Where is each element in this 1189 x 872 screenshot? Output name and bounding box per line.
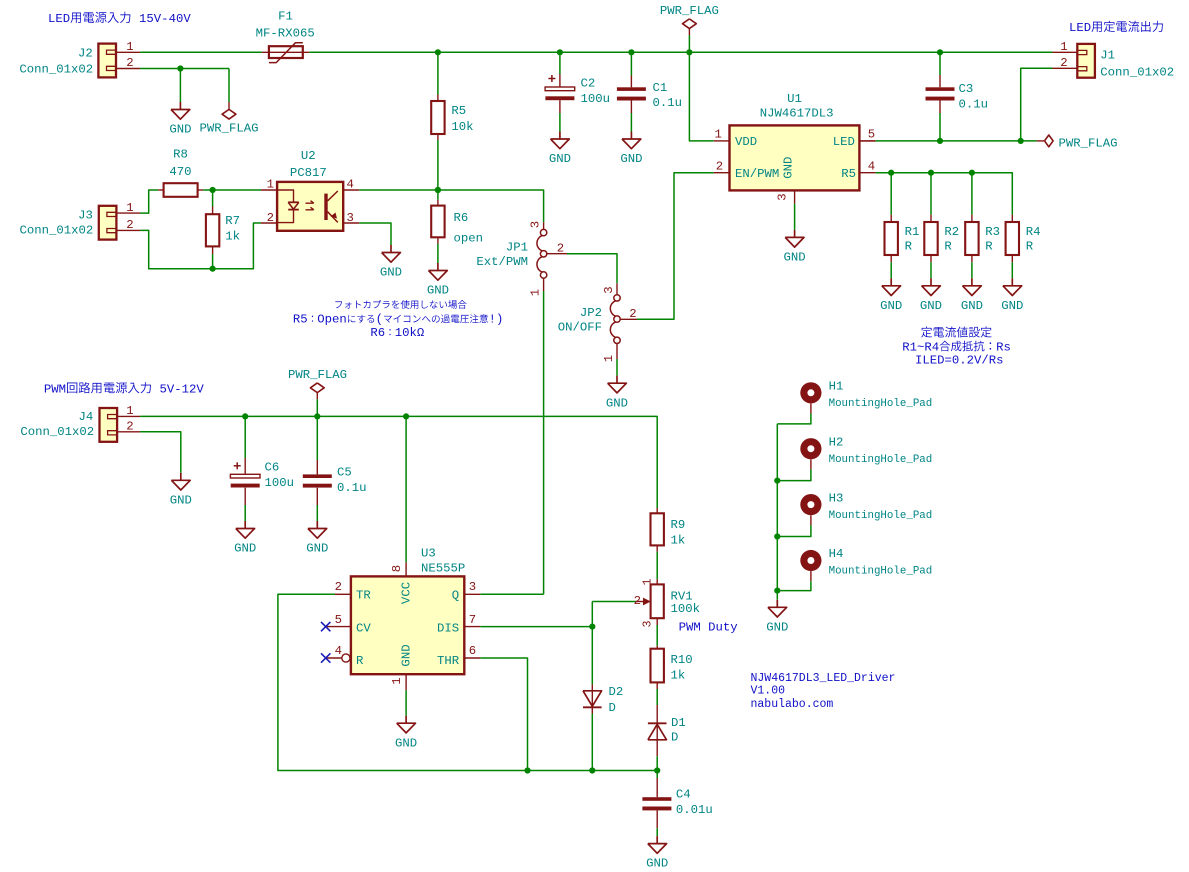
ground below C5 [316, 521, 318, 529]
J1 pin 2 [1053, 67, 1078, 69]
resistor R8 [164, 183, 198, 197]
wire LED line [876, 140, 1037, 142]
J4 pin 1 [117, 415, 140, 417]
svg-text:GND: GND [170, 493, 192, 507]
junction bus at H3 [774, 533, 780, 539]
R8 left pin [158, 189, 163, 191]
junction R5-R6 opto node [435, 187, 441, 193]
svg-text:GND: GND [549, 152, 571, 166]
U3 pin 1 GND [405, 674, 407, 690]
wire node down to R7 [212, 190, 214, 207]
R6 top pin [437, 200, 439, 206]
wire R1 to GND [890, 262, 892, 278]
D1 pin line [656, 705, 658, 756]
R4 bottom pin [1011, 255, 1013, 262]
ground below C4 [656, 836, 658, 844]
junction LED line at J1 pin2 drop [1018, 138, 1024, 144]
wire RV1 to R10 [656, 625, 658, 646]
svg-text:8: 8 [390, 565, 404, 572]
svg-text:C1: C1 [653, 81, 668, 95]
svg-text:5: 5 [335, 613, 342, 627]
wire D2 to bottom rail [591, 714, 593, 771]
junction D2 at bottom rail [589, 767, 595, 773]
JP2 pin 3 stub [616, 283, 618, 294]
svg-text:open: open [454, 232, 484, 246]
ground below C1 [630, 132, 632, 140]
H4 pin stub [810, 571, 812, 581]
ground below U2 [390, 245, 392, 253]
svg-text:2: 2 [716, 160, 723, 174]
wire C3 bottom [939, 113, 941, 141]
svg-text:R6: R6 [370, 326, 385, 340]
mounting hole H2 [800, 438, 821, 459]
svg-text:EN/PWM: EN/PWM [735, 167, 779, 181]
svg-text:nabulabo.com: nabulabo.com [751, 698, 834, 711]
junction bus at H4 [774, 588, 780, 594]
svg-text:Rs: Rs [996, 340, 1011, 354]
C6 bottom pin [244, 488, 246, 505]
svg-text:1: 1 [390, 677, 404, 684]
ground below U1 [794, 230, 796, 238]
U2 pin 2 [261, 222, 277, 224]
U1 pin 4 R5 [859, 172, 875, 174]
svg-text:R5: R5 [841, 167, 856, 181]
wire U3 THR down [480, 658, 527, 771]
C5 top pin [316, 460, 318, 474]
svg-text:2: 2 [629, 307, 636, 321]
U3 pin 4 inversion bubble [342, 654, 350, 662]
wire J3 pin2 to bottom link [140, 223, 261, 269]
C3 bottom pin [939, 101, 941, 114]
svg-text:Ext/PWM: Ext/PWM [476, 255, 528, 269]
R10 bottom pin [656, 682, 658, 689]
svg-text:1: 1 [715, 128, 722, 142]
svg-text:PWR_FLAG: PWR_FLAG [199, 122, 258, 136]
R10 top pin [656, 646, 658, 649]
wire rail to U3 VCC [405, 416, 407, 562]
ground below mounting bus [776, 600, 778, 608]
svg-text:Conn_01x02: Conn_01x02 [20, 224, 94, 238]
wire R9 to RV1 [656, 552, 658, 580]
ground below J2 [179, 102, 181, 110]
resistor R5 [431, 101, 444, 134]
power flag LED output [1037, 140, 1045, 142]
junction top rail at U1 VDD drop [686, 49, 692, 55]
R4 top pin [1011, 215, 1013, 222]
svg-text:R10: R10 [671, 653, 693, 667]
wire C5 to GND [316, 505, 318, 521]
svg-text:DIS: DIS [437, 621, 459, 635]
svg-text:R: R [944, 239, 952, 253]
R5 top pin [437, 95, 439, 102]
note line 1 photocoupler usage [335, 301, 342, 308]
svg-text:Conn_01x02: Conn_01x02 [19, 62, 93, 76]
R2 top pin [930, 215, 932, 222]
wire C1 to GND [630, 113, 632, 132]
svg-text:CV: CV [356, 621, 371, 635]
svg-text:1k: 1k [225, 229, 240, 243]
svg-text:H4: H4 [829, 547, 844, 561]
svg-text:GND: GND [880, 299, 902, 313]
ground below R2 [930, 278, 932, 286]
wire C4 to GND [656, 828, 658, 836]
wire F1 to top rail [309, 51, 1052, 53]
ground below R1 [890, 278, 892, 286]
wire R4 to GND [1011, 262, 1013, 278]
wire H3 to bus [777, 525, 811, 536]
svg-text:H3: H3 [829, 491, 844, 505]
resistor R6 [431, 206, 444, 238]
fuse F1 slash [269, 43, 303, 63]
connector J1 [1077, 44, 1095, 78]
junction top rail at C2 [557, 49, 563, 55]
wire C2 to GND [559, 113, 561, 132]
svg-text:3: 3 [529, 221, 543, 228]
svg-text:TR: TR [356, 589, 371, 603]
svg-text:5: 5 [868, 128, 875, 142]
wire down to R3 [971, 173, 973, 215]
svg-text:15V-40V: 15V-40V [139, 12, 191, 26]
svg-text:100u: 100u [581, 92, 611, 106]
wire down to R1 [890, 173, 892, 215]
wire J2 pin2 to PWR_FLAG drop [140, 68, 229, 70]
svg-text:R7: R7 [225, 214, 240, 228]
U2 pin 3 [343, 222, 359, 224]
J2 pin 2 [116, 68, 140, 70]
wire JP2 pin1 to GND [616, 359, 618, 376]
RV1 wiper arrow [636, 601, 644, 603]
resistor R9 [651, 513, 664, 545]
capacitor C3 [926, 87, 955, 91]
svg-text:R5: R5 [451, 104, 466, 118]
wire top rail to C2 [559, 52, 561, 74]
wire JP2 pin2 to U1 ENPWM [637, 173, 714, 320]
RV1 bottom pin [656, 618, 658, 625]
svg-text:R4: R4 [1026, 225, 1041, 239]
svg-text:GND: GND [961, 299, 983, 313]
svg-text:LED: LED [1069, 21, 1091, 35]
resistor R1 [885, 222, 898, 255]
svg-text:0.1u: 0.1u [959, 98, 989, 112]
capacitor C6 [230, 474, 260, 478]
svg-text:PWR_FLAG: PWR_FLAG [288, 368, 347, 382]
U2 pin 4 [343, 189, 359, 191]
jumper JP1 [540, 229, 546, 235]
U3 pin 6 THR [464, 657, 480, 659]
wire J4 pin2 to GND [140, 432, 181, 473]
svg-text:THR: THR [437, 654, 460, 668]
C6 top pin [244, 458, 246, 474]
svg-text:100k: 100k [671, 602, 701, 616]
J3 pin 2 [116, 229, 140, 231]
power flag PWM rail [316, 399, 318, 416]
svg-text:MountingHole_Pad: MountingHole_Pad [829, 510, 933, 522]
svg-text:J3: J3 [78, 209, 93, 223]
wire J2 pin1 to fuse F1 [140, 51, 262, 53]
svg-text:GND: GND [920, 299, 942, 313]
svg-text:LED: LED [48, 12, 70, 26]
svg-text:R1~R4: R1~R4 [902, 340, 939, 354]
svg-text:MountingHole_Pad: MountingHole_Pad [829, 566, 933, 578]
wire JP1 pin2 to JP2 pin3 [567, 254, 617, 284]
svg-text:C2: C2 [581, 77, 596, 91]
resistor R4 [1006, 222, 1019, 255]
svg-text:V1.00: V1.00 [751, 685, 786, 698]
U1 pin 3 GND [794, 190, 796, 203]
JP2 pin 1 stub [616, 344, 618, 359]
svg-text:GND: GND [306, 542, 328, 556]
svg-text:MF-RX065: MF-RX065 [256, 27, 315, 41]
U3 pin 7 DIS [464, 626, 480, 628]
svg-text:GND: GND [606, 396, 628, 410]
ground below U3 [405, 716, 407, 724]
junction R5 line at R3 [969, 170, 975, 176]
svg-text:1k: 1k [671, 669, 686, 683]
svg-text:R5: R5 [293, 312, 308, 326]
svg-text:U2: U2 [301, 149, 316, 163]
svg-text:R2: R2 [944, 225, 959, 239]
wire H4 to bus [777, 581, 811, 590]
J3 pin 1 [116, 212, 140, 214]
U3 pin 2 TR [335, 593, 351, 595]
wire top rail to U1 VDD [689, 52, 713, 141]
wire U3 pin1 to GND [405, 690, 407, 715]
svg-text:R9: R9 [671, 518, 686, 532]
U2 internal LED diode [277, 190, 293, 202]
svg-text:GND: GND [169, 123, 191, 137]
wire U2 pin4 to JP1 [359, 190, 543, 222]
svg-text:GND: GND [380, 266, 402, 280]
wire wiper down to DIS node [591, 602, 593, 685]
no-connect X on U3 pin 4 [321, 653, 330, 662]
svg-text:VCC: VCC [400, 582, 414, 604]
U3 pin 8 VCC [405, 562, 407, 576]
J4 pin 2 [117, 431, 140, 433]
C5 bottom pin [316, 488, 318, 505]
wire U1 pin3 to GND [794, 204, 796, 230]
wire rail to C6 [244, 416, 246, 458]
resistor R2 [924, 222, 937, 255]
U1 pin 1 VDD [714, 140, 730, 142]
svg-text:Open: Open [317, 312, 347, 326]
svg-text:C3: C3 [959, 82, 974, 96]
ground below C6 [244, 521, 246, 529]
wire RV1 wiper link [592, 601, 635, 603]
svg-text:GND: GND [784, 251, 806, 265]
svg-text:GND: GND [766, 620, 788, 634]
svg-text:GND: GND [427, 284, 449, 298]
svg-text:Conn_01x02: Conn_01x02 [1100, 65, 1174, 79]
junction THR at bottom rail [524, 767, 530, 773]
svg-text:2: 2 [557, 241, 564, 255]
H1 pin stub [810, 403, 812, 413]
svg-text:H1: H1 [829, 380, 844, 394]
svg-text:1: 1 [1060, 40, 1067, 54]
svg-text:ILED=0.2V/Rs: ILED=0.2V/Rs [915, 354, 1004, 368]
svg-text:4: 4 [868, 160, 875, 174]
svg-text:R: R [356, 654, 364, 668]
svg-text:4: 4 [335, 644, 342, 658]
wire R7 bottom to link [212, 254, 214, 269]
wire JP1 pin1 down to U3 Q [543, 291, 545, 594]
wire H2 to bus [777, 469, 811, 480]
junction rail at U3 VCC [403, 413, 409, 419]
wire bottom rail to C4 [656, 771, 658, 779]
svg-text:Q: Q [452, 589, 459, 603]
wire R2 to GND [930, 262, 932, 278]
junction top rail at R5 [435, 49, 441, 55]
H2 pin stub [810, 459, 812, 469]
C2 bottom pin [559, 100, 561, 113]
wire C3 top [939, 52, 941, 75]
wire mounting bus [776, 424, 778, 600]
svg-text:3: 3 [347, 211, 354, 225]
svg-text:JP1: JP1 [506, 241, 528, 255]
capacitor C2 [545, 87, 575, 91]
potentiometer RV1 body [651, 584, 664, 618]
wire J3 pin1 up to R8 [140, 190, 158, 213]
U2 pin 1 [261, 189, 277, 191]
JP1 pin 2 stub [547, 253, 567, 255]
svg-text:(: ( [376, 312, 383, 326]
C3 top pin [939, 75, 941, 87]
wire down to GND from J2 pin2 [179, 69, 181, 103]
svg-text:0.1u: 0.1u [337, 481, 367, 495]
svg-text:2: 2 [335, 580, 342, 594]
U3 pin 5 CV [327, 626, 351, 628]
svg-text:1k: 1k [671, 534, 686, 548]
svg-text:2: 2 [126, 420, 133, 434]
svg-text:0.01u: 0.01u [676, 803, 713, 817]
svg-text:C6: C6 [265, 461, 280, 475]
JP2 pin 2 stub [620, 318, 637, 320]
R2 bottom pin [930, 255, 932, 262]
svg-text:D1: D1 [671, 716, 686, 730]
diode D2 [583, 691, 602, 707]
svg-text:D: D [609, 701, 616, 715]
svg-text:MountingHole_Pad: MountingHole_Pad [829, 398, 933, 410]
C4 top pin [656, 778, 658, 797]
wire down to R2 [930, 173, 932, 215]
R6 bottom pin [437, 237, 439, 243]
wire C6 to GND [244, 505, 246, 521]
svg-text:C5: C5 [337, 466, 352, 480]
R9 top pin [656, 508, 658, 513]
R8 right pin [198, 189, 204, 191]
svg-text:PWM: PWM [44, 382, 66, 396]
svg-text:10kΩ: 10kΩ [395, 326, 425, 340]
wire down to PWR_FLAG [228, 69, 230, 103]
mounting hole H1 [800, 382, 821, 403]
ground below C2 [559, 132, 561, 140]
wire J4 rail [140, 416, 657, 508]
svg-text:2: 2 [126, 56, 133, 70]
svg-text:0.1u: 0.1u [653, 96, 683, 110]
diode D1 [648, 722, 667, 724]
opto-coupler U2 body [277, 182, 343, 231]
junction DIS node [589, 624, 595, 630]
svg-text:U3: U3 [421, 547, 436, 561]
jumper JP2 [614, 295, 620, 301]
svg-text:R3: R3 [985, 225, 1000, 239]
svg-text:1: 1 [126, 40, 133, 54]
wire H1 to bus [777, 414, 811, 424]
svg-text:VDD: VDD [735, 135, 757, 149]
wire R6 to GND [437, 244, 439, 264]
svg-text:R6: R6 [454, 211, 469, 225]
IC U3 body [351, 576, 464, 674]
C2 top pin [559, 74, 561, 87]
R3 top pin [971, 215, 973, 222]
svg-text:NJW4617DL3: NJW4617DL3 [760, 107, 834, 121]
wire R10 to D1 [656, 689, 658, 705]
svg-text:1: 1 [267, 178, 274, 192]
resistor R10 [651, 649, 664, 683]
svg-text:3: 3 [602, 286, 616, 293]
note line current setting [921, 327, 932, 338]
svg-text:1: 1 [126, 201, 133, 215]
svg-text:2: 2 [1060, 56, 1067, 70]
svg-text:PWR_FLAG: PWR_FLAG [1059, 136, 1118, 150]
wire U1 R5 line [876, 173, 1013, 215]
junction rail at C6 [242, 413, 248, 419]
junction R7 bottom on link [210, 266, 216, 272]
R1 bottom pin [890, 255, 892, 262]
U3 pin 3 Q [464, 593, 480, 595]
svg-text:1: 1 [529, 289, 543, 296]
svg-text:2: 2 [267, 211, 274, 225]
svg-text:J4: J4 [79, 410, 94, 424]
junction R5 line at R2 [928, 170, 934, 176]
wire top rail to C1 [630, 52, 632, 75]
junction LED line at C3 [937, 138, 943, 144]
U1 pin 5 LED [859, 140, 875, 142]
svg-text:GND: GND [1001, 299, 1023, 313]
no-connect X on U3 pin 5 [321, 622, 330, 631]
H3 pin stub [810, 515, 812, 525]
svg-text:GND: GND [782, 157, 796, 179]
JP1 pin 3 stub [543, 222, 545, 229]
svg-text:GND: GND [620, 152, 642, 166]
svg-text:JP2: JP2 [580, 306, 602, 320]
mounting hole H3 [800, 494, 821, 515]
fuse F1 body [269, 46, 303, 58]
U2 internal light arrows [306, 201, 314, 210]
D2 pin line [591, 684, 593, 713]
svg-text:1: 1 [602, 355, 616, 362]
RV1 top pin [656, 579, 658, 584]
R3 bottom pin [971, 255, 973, 262]
svg-text:PWR_FLAG: PWR_FLAG [660, 4, 719, 18]
J1 pin 1 [1053, 51, 1078, 53]
svg-text:J2: J2 [78, 47, 93, 61]
svg-text:GND: GND [646, 857, 668, 871]
ground below R3 [971, 278, 973, 286]
wire R5 to R6 node [437, 140, 439, 200]
junction top rail at C1 [628, 49, 634, 55]
U2 internal phototransistor [324, 194, 327, 220]
U3 pin 4 R [326, 657, 342, 659]
svg-text:GND: GND [395, 736, 417, 750]
svg-text:NJW4617DL3_LED_Driver: NJW4617DL3_LED_Driver [751, 672, 896, 685]
svg-text:R: R [1026, 239, 1034, 253]
capacitor C1 [617, 87, 646, 91]
ground below JP2 [616, 376, 618, 384]
svg-text:NE555P: NE555P [421, 562, 465, 576]
svg-text:3: 3 [641, 620, 655, 627]
svg-text:PC817: PC817 [290, 166, 327, 180]
svg-text:H2: H2 [829, 435, 844, 449]
